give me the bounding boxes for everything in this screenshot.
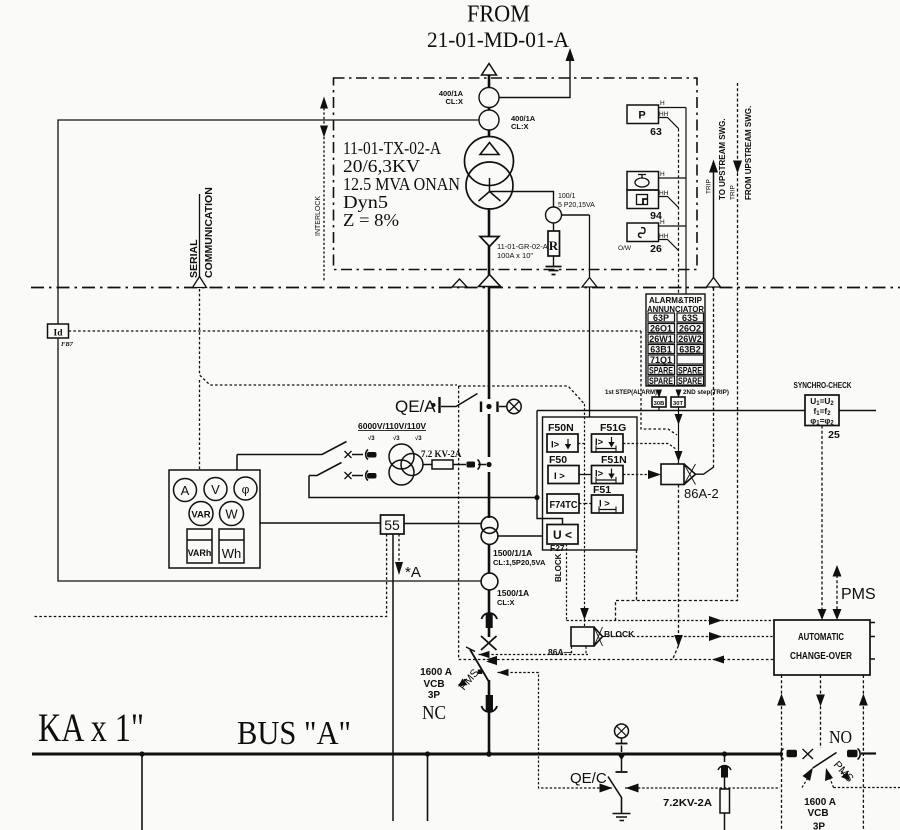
svg-text:26: 26 xyxy=(650,243,662,255)
svg-text:AUTOMATIC: AUTOMATIC xyxy=(798,631,844,643)
svg-text:SPARE: SPARE xyxy=(678,366,702,376)
svg-text:11-01-TX-02-A: 11-01-TX-02-A xyxy=(343,138,441,158)
svg-text:1600 A: 1600 A xyxy=(420,667,452,678)
svg-text:VCB: VCB xyxy=(807,808,828,819)
svg-text:COMMUNICATION: COMMUNICATION xyxy=(203,187,215,278)
svg-text:SPARE: SPARE xyxy=(649,376,673,386)
svg-text:KA x 1": KA x 1" xyxy=(38,705,144,750)
svg-text:Id: Id xyxy=(54,329,64,339)
svg-text:R: R xyxy=(549,238,559,253)
svg-text:26W1: 26W1 xyxy=(649,334,673,344)
svg-text:√3: √3 xyxy=(368,435,375,442)
svg-text:63B1: 63B1 xyxy=(650,345,672,355)
svg-text:φ: φ xyxy=(242,483,250,497)
svg-text:VCB: VCB xyxy=(423,679,444,690)
svg-text:HH: HH xyxy=(659,111,669,118)
svg-text:CL:X: CL:X xyxy=(446,97,464,106)
svg-text:7.2 KV-2A: 7.2 KV-2A xyxy=(421,449,462,459)
svg-text:2ND step(TRIP): 2ND step(TRIP) xyxy=(683,389,729,396)
svg-text:F27: F27 xyxy=(550,543,565,553)
svg-text:Z = 8%: Z = 8% xyxy=(343,210,399,230)
svg-text:I >: I > xyxy=(599,499,610,510)
svg-text:30T: 30T xyxy=(673,401,683,407)
svg-text:F50N: F50N xyxy=(548,422,574,434)
svg-text:100/1: 100/1 xyxy=(558,193,576,200)
svg-text:21-01-MD-01-A: 21-01-MD-01-A xyxy=(427,27,569,52)
svg-text:26O1: 26O1 xyxy=(650,324,672,334)
svg-text:F50: F50 xyxy=(549,454,567,466)
svg-text:26O2: 26O2 xyxy=(679,324,701,334)
svg-text:1st STEP(ALARM): 1st STEP(ALARM) xyxy=(605,389,657,396)
svg-text:√3: √3 xyxy=(415,435,422,442)
svg-text:A: A xyxy=(181,483,190,498)
svg-text:BLOCK: BLOCK xyxy=(604,629,635,639)
svg-text:1500/1/1A: 1500/1/1A xyxy=(493,548,532,558)
svg-text:I>: I> xyxy=(551,440,560,451)
svg-text:SPARE: SPARE xyxy=(678,376,702,386)
svg-text:30B: 30B xyxy=(654,401,665,407)
svg-text:25: 25 xyxy=(828,429,840,441)
svg-text:TRIP: TRIP xyxy=(730,185,737,200)
svg-text:SPARE: SPARE xyxy=(649,366,673,376)
svg-text:86A—: 86A— xyxy=(548,647,573,657)
svg-text:6000V/110V/110V: 6000V/110V/110V xyxy=(358,421,426,431)
svg-text:5 P20,15VA: 5 P20,15VA xyxy=(558,202,595,209)
svg-text:√3: √3 xyxy=(393,435,400,442)
svg-text:BUS "A": BUS "A" xyxy=(237,715,351,752)
svg-text:PMS: PMS xyxy=(841,586,876,603)
svg-text:Wh: Wh xyxy=(222,546,242,561)
svg-text:63: 63 xyxy=(650,126,662,138)
svg-text:12.5 MVA ONAN: 12.5 MVA ONAN xyxy=(343,174,460,194)
svg-text:FB7: FB7 xyxy=(61,341,74,348)
svg-text:*A: *A xyxy=(405,564,421,581)
svg-text:I >: I > xyxy=(554,471,565,482)
svg-text:VARh: VARh xyxy=(188,548,212,558)
svg-text:100A x 10": 100A x 10" xyxy=(497,251,533,260)
svg-text:20/6,3KV: 20/6,3KV xyxy=(343,156,420,176)
svg-text:W: W xyxy=(225,507,238,522)
svg-text:CL:X: CL:X xyxy=(497,598,515,607)
svg-text:QE/C: QE/C xyxy=(570,770,607,787)
svg-text:H: H xyxy=(660,100,665,107)
svg-text:1600 A: 1600 A xyxy=(804,797,836,808)
svg-text:QE/A: QE/A xyxy=(395,397,436,416)
svg-text:3P: 3P xyxy=(428,690,441,701)
svg-text:86A-2: 86A-2 xyxy=(684,486,719,501)
svg-text:63B2: 63B2 xyxy=(679,345,701,355)
svg-text:FROM: FROM xyxy=(467,2,530,28)
svg-text:CHANGE-OVER: CHANGE-OVER xyxy=(790,650,852,662)
svg-text:O/W: O/W xyxy=(618,245,632,252)
svg-text:TO UPSTREAM SWG.: TO UPSTREAM SWG. xyxy=(718,118,727,200)
svg-text:26W2: 26W2 xyxy=(678,334,702,344)
svg-text:71Q1: 71Q1 xyxy=(650,355,672,365)
svg-text:U <: U < xyxy=(553,528,572,542)
svg-text:F51: F51 xyxy=(593,484,611,496)
svg-text:H: H xyxy=(660,171,665,178)
svg-text:H: H xyxy=(660,219,665,226)
svg-text:HH: HH xyxy=(659,190,669,197)
svg-text:F51N: F51N xyxy=(601,454,627,466)
svg-text:7.2KV-2A: 7.2KV-2A xyxy=(663,798,712,809)
svg-text:Dyn5: Dyn5 xyxy=(343,192,388,212)
svg-text:BLOCK: BLOCK xyxy=(554,553,563,582)
svg-text:11-01-GR-02-A: 11-01-GR-02-A xyxy=(497,242,548,251)
svg-text:F51G: F51G xyxy=(600,422,626,434)
svg-text:CL:X: CL:X xyxy=(511,122,529,131)
svg-text:NC: NC xyxy=(422,702,446,724)
svg-text:3P: 3P xyxy=(813,822,826,830)
svg-text:V: V xyxy=(211,482,220,497)
svg-text:SYNCHRO-CHECK: SYNCHRO-CHECK xyxy=(794,381,852,390)
svg-text:55: 55 xyxy=(384,517,400,533)
svg-text:63P: 63P xyxy=(653,313,669,323)
svg-text:INTERLOCK: INTERLOCK xyxy=(315,196,322,236)
svg-text:1500/1A: 1500/1A xyxy=(497,588,529,598)
svg-text:CL:1,5P20,5VA: CL:1,5P20,5VA xyxy=(493,558,546,567)
svg-text:HH: HH xyxy=(659,233,669,240)
svg-text:F74TC: F74TC xyxy=(550,500,578,511)
svg-text:P: P xyxy=(638,110,645,122)
svg-text:NO: NO xyxy=(829,727,852,747)
svg-text:SERIAL: SERIAL xyxy=(188,239,200,278)
svg-text:TRIP: TRIP xyxy=(706,179,713,194)
svg-text:FROM UPSTREAM SWG.: FROM UPSTREAM SWG. xyxy=(744,106,753,200)
svg-text:VAR: VAR xyxy=(191,510,210,521)
svg-text:63S: 63S xyxy=(682,313,698,323)
